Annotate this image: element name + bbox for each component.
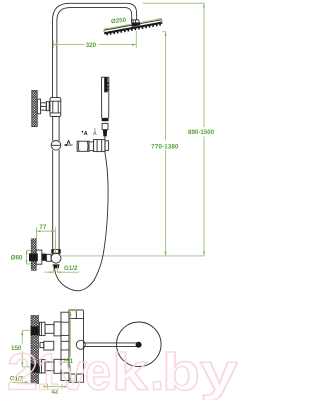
- detail left column: [61, 312, 69, 380]
- shower column lower tube: [53, 117, 59, 253]
- svg-text:890-1500: 890-1500: [188, 129, 215, 136]
- svg-text:320: 320: [86, 42, 97, 49]
- hand shower handle bottom band: [102, 118, 109, 121]
- section marker A arrow (slider): [65, 144, 73, 146]
- svg-text:Ø60: Ø60: [11, 254, 23, 261]
- dimension 890-1500 extension line top: [143, 3, 205, 256]
- watermark 21vek.by: [7, 344, 238, 400]
- wall bracket upper: arm shaft: [41, 103, 47, 110]
- hand shower stem: [104, 136, 106, 140]
- shower column upper tube and arm (inner line): [57, 8, 132, 98]
- holder left cylinder: [77, 141, 89, 151]
- dimension 890-1500 arrows: [203, 3, 205, 256]
- detail arm: [84, 343, 137, 347]
- svg-text:A: A: [84, 131, 88, 137]
- svg-text:2: 2: [7, 344, 38, 400]
- dimension D60: [27, 250, 31, 264]
- dimension D250 line along head: [104, 19, 162, 34]
- dimension 42: [48, 384, 63, 389]
- slider ring slit: [51, 144, 61, 146]
- rain shower head connector: [131, 20, 140, 27]
- rain shower head group (tilted): [104, 18, 163, 36]
- tee valve collar: [52, 250, 61, 254]
- hose through holder: [104, 140, 106, 152]
- dimension 320 line: [53, 31, 136, 48]
- tee valve bottom nipple: [53, 264, 60, 268]
- dimension 770-1380 extension line: [162, 32, 165, 256]
- shower column upper tube and arm (outer line): [53, 3, 137, 98]
- valve left connector block: [42, 254, 46, 261]
- dimension 77: [37, 227, 56, 252]
- holder right block: [94, 140, 105, 152]
- svg-text:v: v: [59, 344, 87, 400]
- detail bottom knob: [39, 360, 45, 373]
- holder ball joint: [89, 141, 94, 151]
- dimension 770-1380 arrows: [165, 32, 167, 256]
- head nozzles: [106, 24, 161, 36]
- head panel: [104, 20, 162, 34]
- wall bracket upper: nut: [46, 102, 49, 111]
- lower wall flange knurled (D60): [31, 239, 36, 270]
- detail top knob: [39, 322, 45, 335]
- dimension G1/2 (main): [45, 266, 80, 273]
- hand shower connector: [102, 123, 108, 129]
- hand shower handle: [101, 77, 109, 118]
- detail head disc: [117, 322, 162, 367]
- svg-text:1: 1: [37, 344, 59, 400]
- lower flange collar: [36, 250, 42, 264]
- svg-text:A: A: [93, 131, 97, 137]
- dimension 281: [69, 311, 85, 382]
- green centerline in pipe: [54, 239, 56, 252]
- svg-text:Ø250: Ø250: [111, 17, 127, 25]
- svg-text:G1/2: G1/2: [64, 265, 78, 272]
- detail wall knurled strip: [31, 316, 39, 384]
- detail arm hub: [136, 342, 142, 348]
- lower flange dark center: [29, 253, 38, 261]
- detail middle connector: [40, 343, 44, 348]
- wall bracket upper: collar: [37, 99, 40, 114]
- detail knob dark blobs: [31, 327, 39, 336]
- detail main body: [69, 310, 84, 383]
- hand shower spray head dark strip: [104, 78, 108, 93]
- svg-text:e: e: [85, 344, 111, 400]
- baseline green dimension line: [61, 255, 204, 257]
- shower hose: [55, 152, 109, 291]
- svg-text:77: 77: [39, 224, 46, 231]
- dimension 150: [22, 330, 31, 367]
- detail arm mount lines: [61, 341, 69, 350]
- wall bracket upper: pipe clamp: [50, 98, 61, 117]
- svg-text:k: k: [112, 344, 148, 400]
- dimension D250 arrows: [104, 18, 162, 31]
- svg-text:b: b: [162, 344, 200, 400]
- slider ring: [51, 141, 61, 151]
- tee valve ring: [51, 253, 61, 263]
- detail ball joint: [76, 340, 85, 349]
- holder right cap: [105, 141, 109, 151]
- wall bracket upper: knurled flange: [32, 90, 38, 126]
- section marker arrow (holder): [82, 131, 84, 134]
- svg-text:770-1380: 770-1380: [151, 143, 179, 150]
- hand shower cone fitting: [103, 130, 107, 137]
- svg-text:y: y: [200, 344, 238, 400]
- dimension 320 arrows: [53, 44, 136, 46]
